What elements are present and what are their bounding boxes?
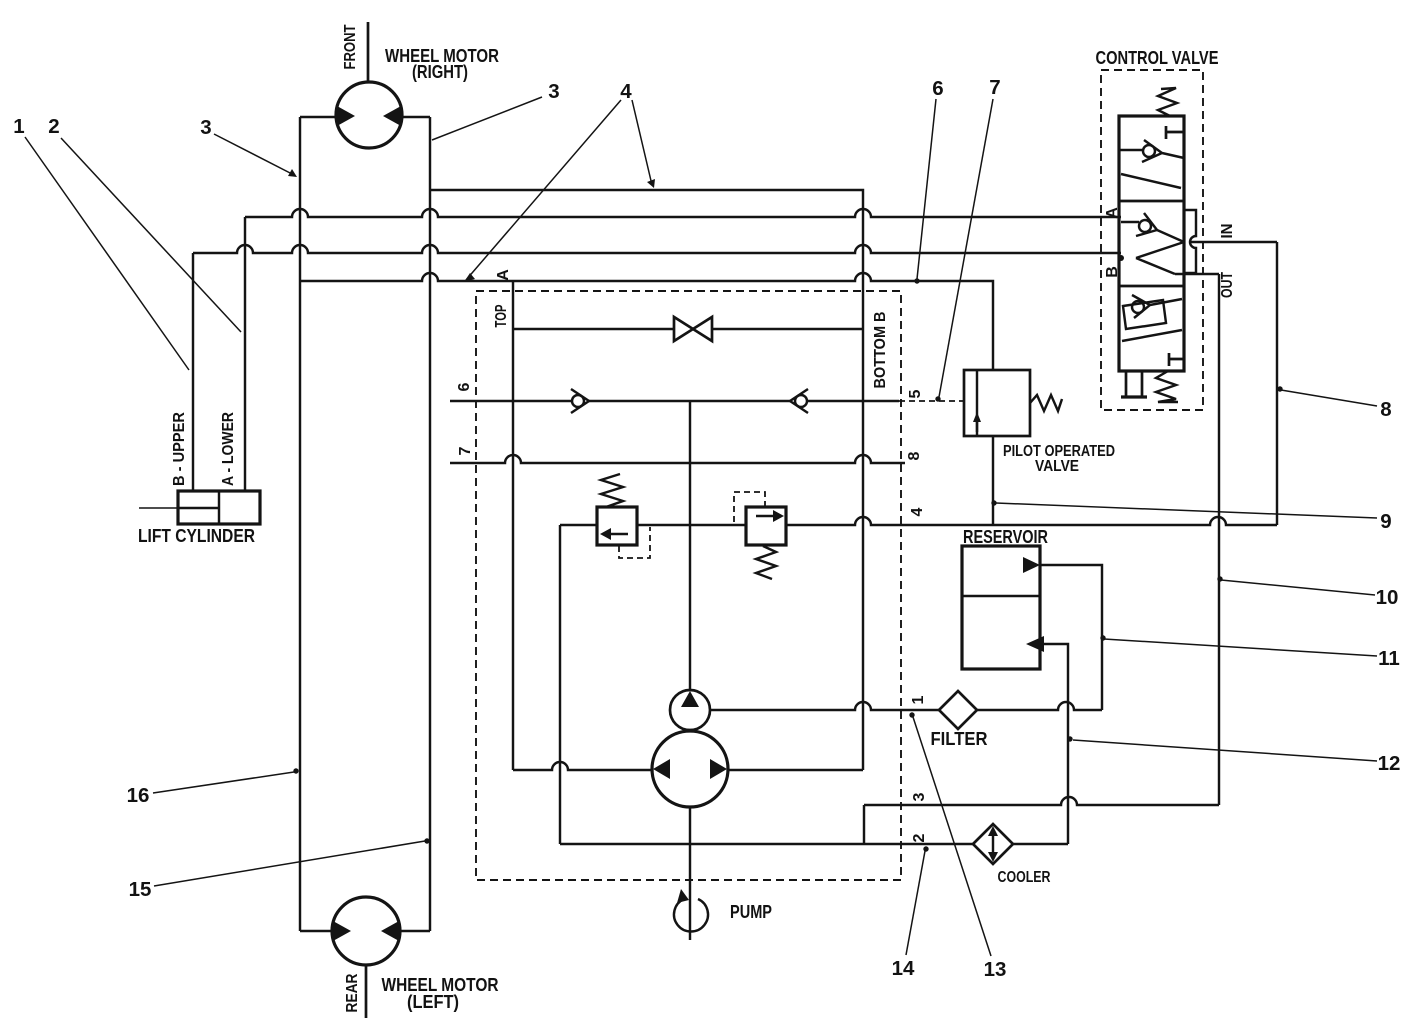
leader 6 <box>917 99 936 279</box>
leader 11 <box>1104 639 1377 656</box>
wire pump lower stem <box>689 807 691 940</box>
wire line2b cooler line y=844 <box>560 843 1068 845</box>
wheel motor left arrow right <box>381 921 399 941</box>
main pump arrow right <box>710 759 727 779</box>
leader 15 <box>154 841 425 886</box>
svg-text:B - UPPER: B - UPPER <box>171 412 188 486</box>
relief valve right arrow <box>756 515 777 517</box>
svg-text:B: B <box>1104 266 1121 278</box>
svg-text:7: 7 <box>989 76 1000 99</box>
check valve left circle <box>572 395 584 407</box>
svg-text:3: 3 <box>548 80 559 103</box>
svg-text:FRONT: FRONT <box>342 24 359 69</box>
svg-text:8: 8 <box>906 451 923 460</box>
check valve right seat <box>790 389 808 413</box>
wheel motor right stem <box>367 22 370 82</box>
wheel motor left arrow left <box>333 921 351 941</box>
relief valve right box <box>746 507 786 545</box>
svg-text:TOP: TOP <box>493 304 510 327</box>
wire V2 right tall vertical x=430 <box>429 117 431 931</box>
control valve actuator pin <box>1126 371 1142 396</box>
svg-text:11: 11 <box>1378 647 1400 670</box>
pilot operated valve box <box>964 370 1030 436</box>
svg-text:7: 7 <box>457 446 474 455</box>
svg-text:(RIGHT): (RIGHT) <box>412 62 468 82</box>
cooler diamond <box>973 824 1013 864</box>
control valve IN line <box>1190 241 1277 243</box>
wire V1 left tall vertical x=300 <box>299 117 301 931</box>
wire relief line y=525 from x=560 to IN drop x=1277 <box>560 517 1277 525</box>
control valve bottom spring <box>1156 371 1178 402</box>
control valve top section check <box>1119 149 1143 151</box>
charge pump arrow <box>681 691 699 707</box>
svg-text:6: 6 <box>932 77 943 100</box>
control valve mid section check <box>1139 220 1151 232</box>
svg-text:1: 1 <box>910 695 927 704</box>
relief valve right pilot dashed <box>734 492 765 523</box>
leader 2 <box>61 138 241 332</box>
leader 12 <box>1073 740 1377 761</box>
wire line3 y=253 lift lower to control valve B with hops <box>193 245 1121 253</box>
lift cylinder divider <box>218 491 220 524</box>
svg-text:PUMP: PUMP <box>730 902 772 922</box>
svg-text:8: 8 <box>1380 398 1391 421</box>
leader 1 <box>25 137 189 370</box>
control valve notch block <box>1184 210 1196 273</box>
svg-text:13: 13 <box>984 958 1007 981</box>
svg-text:10: 10 <box>1376 586 1399 609</box>
main pump arrow left <box>653 759 670 779</box>
svg-text:3: 3 <box>911 792 928 801</box>
leader 16 <box>153 772 294 793</box>
control valve bottom check <box>1132 301 1144 313</box>
wire dashed pilot line y=401 to pilot valve <box>899 400 964 402</box>
svg-text:VALVE: VALVE <box>1035 458 1079 475</box>
leader 3 right <box>432 97 542 140</box>
wire B-upper vertical to lift cylinder <box>192 253 194 491</box>
control valve bottom diagonal <box>1122 330 1182 341</box>
leader 13 <box>913 717 991 956</box>
check valve right circle <box>795 395 807 407</box>
svg-text:RESERVOIR: RESERVOIR <box>963 527 1048 547</box>
svg-text:(LEFT): (LEFT) <box>407 992 459 1012</box>
svg-text:6: 6 <box>456 382 473 391</box>
svg-text:5: 5 <box>907 389 924 398</box>
leader 14 <box>906 851 925 955</box>
wire vertical x=560 relief1 to cooler line <box>559 525 561 844</box>
svg-text:A: A <box>1104 207 1121 219</box>
reservoir divider <box>962 595 1040 597</box>
wire pump feed vertical x=690 <box>689 401 691 690</box>
leader 8 <box>1281 390 1377 406</box>
wire step x=864 between line3 and line2 <box>863 805 865 844</box>
cooler arrow <box>992 831 994 857</box>
leader 9 <box>996 503 1377 518</box>
svg-text:15: 15 <box>129 878 152 901</box>
leader 7 <box>939 99 993 397</box>
svg-text:COOLER: COOLER <box>998 869 1051 886</box>
leader 4 pair <box>466 100 652 280</box>
wire line1 y=190 from V2 to corner then BOTTOM-B vertical x=863 <box>430 190 863 770</box>
wire line4 y=281 from V1 to pilot valve drop with hops <box>300 273 993 370</box>
lift cylinder body <box>178 491 260 524</box>
check valve left seat <box>571 389 589 413</box>
reservoir top arrow <box>1023 557 1040 573</box>
svg-text:IN: IN <box>1219 224 1236 239</box>
leader 3 left <box>214 134 294 175</box>
gate valve bowtie <box>674 317 712 341</box>
svg-text:FILTER: FILTER <box>931 729 988 749</box>
control valve section dividers <box>1119 201 1184 286</box>
relief valve right spring <box>756 546 776 579</box>
wheel motor right arrow right <box>383 106 401 126</box>
svg-text:3: 3 <box>200 116 211 139</box>
wheel motor left circle <box>332 897 400 965</box>
main dashed enclosure box <box>476 291 901 880</box>
wire pump right line y=770 <box>729 769 863 771</box>
pilot operated valve spring <box>1030 395 1062 411</box>
control valve bottom tilted box <box>1123 300 1166 329</box>
leader 10 <box>1221 580 1375 595</box>
wire charge pump line y=710 through filter with hops <box>710 702 1102 710</box>
svg-text:1: 1 <box>13 115 24 138</box>
pump rotation arrow <box>674 899 708 931</box>
relief valve left pilot dashed <box>619 527 650 558</box>
wire IN vertical x=1277 <box>1276 242 1278 525</box>
filter diamond <box>939 691 977 729</box>
svg-text:LIFT CYLINDER: LIFT CYLINDER <box>138 526 255 546</box>
reservoir box <box>962 546 1040 669</box>
lift cylinder piston <box>178 507 219 509</box>
svg-text:2: 2 <box>48 115 59 138</box>
wire OUT vertical x=1219 <box>1218 274 1220 805</box>
pilot operated valve inner line <box>976 370 978 436</box>
wire reservoir top outlet to drop x=1102 <box>1040 565 1102 710</box>
wire check line y=401 <box>450 400 899 402</box>
wire TOP vertical x=513 <box>512 281 514 770</box>
svg-text:REAR: REAR <box>344 973 361 1012</box>
svg-text:4: 4 <box>620 80 632 103</box>
control valve dashed box <box>1101 70 1203 410</box>
pilot operated valve inner arrow <box>976 420 978 432</box>
control valve top spring <box>1158 88 1177 116</box>
svg-text:4: 4 <box>909 507 926 516</box>
svg-text:OUT: OUT <box>1219 272 1236 298</box>
wheel motor right circle <box>336 82 402 148</box>
control valve top section diagonal <box>1121 174 1181 188</box>
svg-text:2: 2 <box>911 833 928 842</box>
svg-text:A - LOWER: A - LOWER <box>220 412 237 486</box>
wire line3b y=805 to OUT drop <box>864 797 1219 805</box>
control valve body <box>1119 116 1184 371</box>
wire reservoir bottom inlet from x=1068 <box>1043 644 1068 844</box>
svg-text:A: A <box>495 269 512 281</box>
reservoir bottom arrow <box>1026 636 1044 652</box>
wire A-lower vertical to lift cylinder <box>244 217 246 491</box>
relief valve left spring <box>601 474 623 507</box>
svg-text:BOTTOM B: BOTTOM B <box>872 312 889 389</box>
wheel motor right connection lines <box>300 116 430 118</box>
wheel motor right arrow left <box>337 106 355 126</box>
relief valve left arrow <box>607 533 628 535</box>
control valve mid section flow diagonals <box>1121 222 1219 274</box>
relief valve left box <box>597 507 637 545</box>
wire pump left line y=770 <box>513 762 653 770</box>
svg-text:9: 9 <box>1380 510 1391 533</box>
control valve bottom tank T <box>1169 353 1184 366</box>
wire pilot valve lower vertical x=993 <box>992 436 994 525</box>
svg-text:16: 16 <box>127 784 150 807</box>
charge pump circle <box>670 690 710 730</box>
svg-text:CONTROL VALVE: CONTROL VALVE <box>1096 48 1219 68</box>
control valve junction dot B <box>1118 255 1124 261</box>
wire line7-8 y=463 with hops <box>450 455 905 463</box>
wire line2 y=217 lift upper to control valve A with hops <box>245 209 1121 217</box>
wheel motor left stem <box>365 965 368 1018</box>
control valve top section tank T <box>1166 126 1184 139</box>
main pump circle <box>652 731 728 807</box>
svg-text:12: 12 <box>1378 752 1401 775</box>
wheel motor left connection lines <box>300 930 430 932</box>
wire gate valve line y=329 <box>513 328 863 330</box>
lift cylinder rod <box>139 507 178 509</box>
svg-text:14: 14 <box>892 957 915 980</box>
